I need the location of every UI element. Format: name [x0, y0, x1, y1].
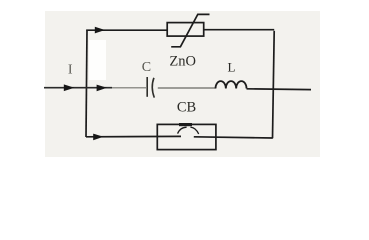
svg-text:ZnO: ZnO [169, 53, 196, 69]
svg-text:L: L [228, 60, 236, 75]
svg-text:I: I [68, 62, 73, 77]
svg-text:CB: CB [177, 100, 196, 116]
svg-text:C: C [142, 60, 151, 75]
